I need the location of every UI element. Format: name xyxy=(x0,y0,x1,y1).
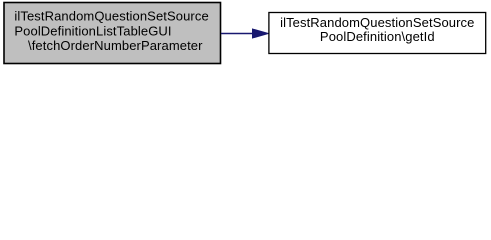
node ilTestRandomQuestionSetSourcePoolDefinitionListTableGUI\fetchOrderNumberParameter (current node, grey) xyxy=(4,3,221,64)
svg-text:PoolDefinition\getId: PoolDefinition\getId xyxy=(320,29,435,44)
svg-text:ilTestRandomQuestionSetSource: ilTestRandomQuestionSetSource xyxy=(14,9,208,24)
node ilTestRandomQuestionSetSourcePoolDefinition\getId xyxy=(269,13,486,54)
svg-text:PoolDefinitionListTableGUI: PoolDefinitionListTableGUI xyxy=(14,24,171,39)
edge arrow from caller to callee xyxy=(221,29,268,38)
svg-text:\fetchOrderNumberParameter: \fetchOrderNumberParameter xyxy=(28,38,203,53)
